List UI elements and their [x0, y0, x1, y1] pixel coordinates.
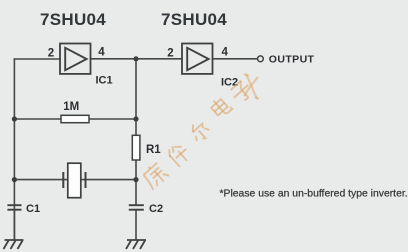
capacitor C2 — [129, 205, 144, 210]
node junction left 1M — [12, 116, 17, 121]
resistor R1 — [132, 135, 140, 160]
watermark 康 — [140, 160, 170, 190]
node junction left crystal — [12, 177, 17, 182]
watermark 尔 — [187, 119, 212, 144]
watermark logo mark — [244, 74, 259, 99]
watermark 电 — [209, 95, 233, 119]
svg-text:2: 2 — [167, 48, 173, 60]
op-amp inverter IC1 — [60, 44, 91, 74]
svg-text:7SHU04: 7SHU04 — [161, 10, 227, 29]
svg-text:7SHU04: 7SHU04 — [40, 10, 106, 29]
crystal X1 — [63, 163, 85, 198]
ground (right) — [126, 240, 146, 249]
wire IC2 output — [213, 58, 257, 60]
wire IC1 output to IC2 input — [91, 58, 183, 60]
capacitor C1 — [7, 205, 21, 210]
wire crystal row — [14, 179, 136, 181]
ground (left) — [4, 240, 24, 249]
svg-text:IC1: IC1 — [96, 75, 113, 87]
watermark 子 — [228, 79, 254, 105]
wire right rail top — [135, 59, 137, 136]
svg-text:C1: C1 — [26, 203, 40, 215]
svg-text:4: 4 — [222, 46, 229, 58]
watermark 华 — [166, 141, 193, 168]
wire C1 to ground — [13, 205, 15, 239]
svg-text:C2: C2 — [149, 203, 163, 215]
svg-text:1M: 1M — [63, 101, 79, 113]
node junction IC1 output — [133, 56, 138, 61]
wire left rail — [13, 59, 15, 205]
wire 1M feedback — [14, 118, 136, 120]
op-amp inverter IC2 — [182, 44, 213, 74]
node OUTPUT terminal — [258, 56, 264, 62]
wire right rail mid — [135, 160, 137, 205]
svg-text:R1: R1 — [146, 144, 161, 156]
svg-text:*Please use an un-buffered typ: *Please use an un-buffered type inverter… — [220, 188, 408, 199]
wire IC1 input — [14, 58, 60, 60]
resistor 1M — [61, 115, 89, 122]
svg-text:OUTPUT: OUTPUT — [269, 54, 315, 66]
node junction right crystal — [133, 177, 138, 182]
svg-text:4: 4 — [98, 46, 105, 58]
wire left rail lower — [13, 210, 15, 239]
node junction right 1M — [133, 116, 138, 121]
wire right rail bottom — [135, 210, 137, 239]
svg-text:2: 2 — [48, 48, 54, 60]
